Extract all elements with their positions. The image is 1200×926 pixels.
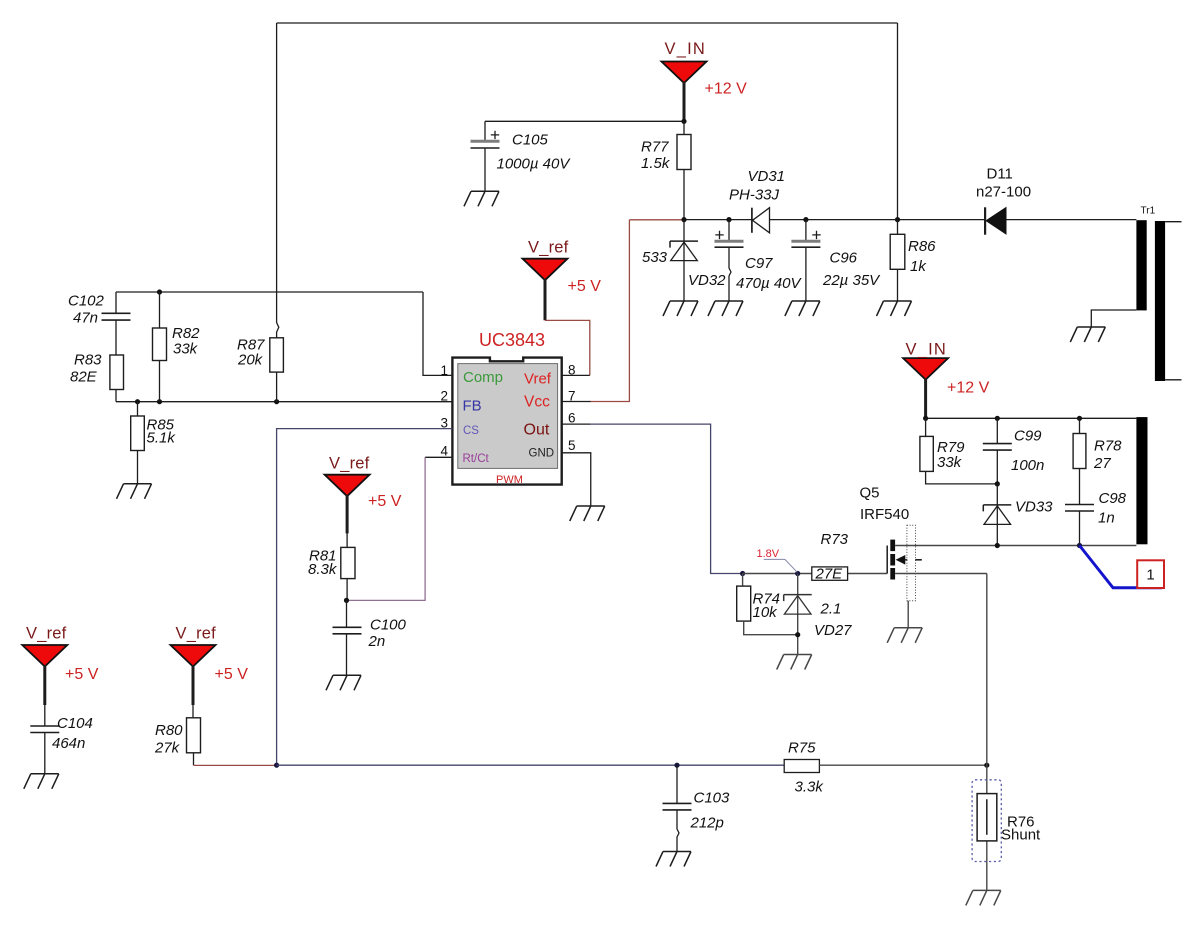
svg-text:Out: Out [524,422,550,439]
svg-text:C103: C103 [694,790,731,807]
resistor R79 [926,418,998,484]
wire node 1 blue [1080,546,1163,588]
wire top rail [277,22,898,24]
svg-text:212p: 212p [690,815,724,832]
svg-text:R83: R83 [74,352,102,369]
capacitor C98 [1079,511,1081,546]
svg-text:2n: 2n [368,633,386,650]
svg-text:1000µ 40V: 1000µ 40V [497,156,572,173]
svg-text:C96: C96 [830,250,858,267]
resistor R76 shunt [986,765,988,890]
svg-text:Comp: Comp [463,369,503,386]
svg-text:n27-100: n27-100 [976,184,1031,201]
junction C98 bottom [1077,543,1082,548]
wire Q5 tab to ground [907,601,909,628]
diode D11 [984,207,986,234]
svg-text:VD33: VD33 [1015,499,1053,516]
zener VD32 [683,220,685,301]
svg-text:R75: R75 [788,740,816,757]
svg-text:+12 V: +12 V [947,380,990,397]
svg-text:V_ref: V_ref [528,239,569,257]
svg-text:Tr1: Tr1 [1141,206,1156,217]
junction C99 top [995,416,1000,421]
resistor R85 [137,402,139,484]
svg-text:+5 V: +5 V [65,666,99,683]
transistor Q5 gate bar [886,546,888,574]
wire Tr1 secondary top lead [1165,221,1181,223]
capacitor C105 [484,121,486,141]
svg-text:R73: R73 [821,531,849,548]
junction rail/R86 [895,217,900,222]
svg-text:IRF540: IRF540 [860,506,909,523]
capacitor C96 [805,220,807,301]
svg-text:1.5k: 1.5k [641,155,671,172]
wire bottom CS rail [277,764,785,766]
ground C97 [708,301,743,316]
junction C103 [674,763,679,768]
svg-text:1: 1 [1146,567,1154,584]
wire V_IN right rail [926,417,1137,419]
svg-text:V_ref: V_ref [26,625,67,643]
power V_ref R80 [171,645,216,667]
junction R82 bottom [157,399,162,404]
svg-text:1n: 1n [1098,510,1115,527]
zener VD27 [797,574,799,655]
wire pin5 to ground [562,453,591,506]
wire Vcc net maroon [590,220,683,402]
svg-text:20k: 20k [237,352,264,369]
wire C105 to V_IN rail [485,120,684,122]
svg-text:+5 V: +5 V [568,278,602,295]
ground R85 [117,484,152,499]
svg-text:C99: C99 [1014,428,1042,445]
ground C104 [24,774,59,789]
wire R87 top column with jog [277,23,279,338]
svg-text:3.3k: 3.3k [795,779,825,796]
svg-text:Q5: Q5 [860,485,880,502]
capacitor C97 [729,220,731,301]
power V_ref pin8 [523,259,568,281]
svg-text:CS: CS [463,425,479,437]
transistor Q5 channel bars [890,540,895,552]
svg-text:FB: FB [463,398,482,415]
transformer Tr1 primary winding [1136,220,1146,310]
junction rail/C96 [803,217,808,222]
resistor R74 [742,574,744,587]
svg-text:1k: 1k [910,258,927,275]
capacitor C102 [115,292,117,355]
power V_ref C104 [22,645,67,667]
junction V_IN stem [923,416,928,421]
capacitor C103 [677,765,679,851]
svg-text:22µ 35V: 22µ 35V [822,272,881,289]
ground R76 [966,890,1001,905]
svg-text:82E: 82E [70,369,98,386]
junction VD33 bottom [995,543,1000,548]
junction R85 [135,399,140,404]
junction R74/VD27 bottom [795,632,800,637]
svg-text:Rt/Ct: Rt/Ct [463,453,490,465]
junction R75/R76/source [984,763,989,768]
wire main rail [684,219,1136,221]
wire Rt/Ct net purple [347,457,426,600]
svg-text:V_ref: V_ref [329,455,370,473]
svg-text:PWM: PWM [496,474,523,486]
power V_IN top [662,62,707,84]
wire pin8 stub [562,374,590,376]
junction rail/C97 [726,217,731,222]
node 1 port [1137,560,1164,588]
svg-text:C98: C98 [1099,490,1127,507]
diode VD31 [751,208,753,233]
svg-text:6: 6 [568,411,576,426]
transistor Q5 package outline [907,525,916,600]
junction rail/R77/VD32 [681,217,686,222]
junction R78 top [1077,416,1082,421]
transformer Tr1 secondary winding [1155,221,1165,381]
svg-text:R80: R80 [155,722,183,739]
svg-text:VD31: VD31 [748,168,786,185]
wire FB rail y402 [116,401,452,403]
wire Out net pin6 [562,423,591,425]
resistor R81 [346,533,348,600]
svg-text:V_ref: V_ref [176,625,217,643]
svg-text:C104: C104 [57,715,93,732]
svg-text:R77: R77 [641,139,669,156]
wire R80 to CS node maroon [194,764,277,766]
capacitor C99 [996,418,998,484]
junction R82 top [157,289,162,294]
resistor R73 [812,567,848,580]
svg-text:2: 2 [440,389,448,404]
svg-text:33k: 33k [173,341,199,358]
ground R86 [877,301,912,316]
svg-text:VD27: VD27 [814,622,852,639]
svg-text:C102: C102 [68,293,105,310]
wire gate row [743,573,888,575]
power V_IN right [903,358,948,380]
junction C99 bottom [995,481,1000,486]
svg-text:10k: 10k [753,604,779,621]
svg-text:+5 V: +5 V [368,493,402,510]
resistor R80 [192,704,195,765]
svg-text:5: 5 [568,438,576,453]
resistor R75 [784,760,819,773]
svg-text:5.1k: 5.1k [147,430,177,447]
svg-text:V_IN: V_IN [906,341,947,359]
svg-text:27k: 27k [154,740,181,757]
svg-text:V_IN: V_IN [665,40,706,58]
svg-text:Vcc: Vcc [524,394,550,411]
zener VD33 [996,484,998,546]
svg-text:1: 1 [440,363,448,378]
wire 1.8V pointer [764,559,798,572]
svg-text:533: 533 [642,249,668,266]
resistor R87 [270,338,284,372]
junction R87 bottom [274,399,279,404]
junction CS column bottom [274,763,279,768]
svg-text:27E: 27E [815,566,844,583]
ground VD32 [663,301,698,316]
wire Q5 drain row [895,545,1136,547]
svg-text:VD32: VD32 [688,272,726,289]
ground C100 [326,675,361,690]
svg-text:464n: 464n [52,735,85,752]
junction V_IN/R77/C105 [681,119,686,124]
svg-text:470µ 40V: 470µ 40V [736,275,803,292]
op-amp U1 UC3843 body [452,358,561,485]
svg-text:R86: R86 [908,238,936,255]
wire R86 top drop [897,23,899,220]
svg-text:R78: R78 [1094,438,1122,455]
ground VD27 [777,655,812,670]
ground C103 [656,852,691,867]
ground Q5 [887,628,922,643]
svg-text:+5 V: +5 V [215,666,249,683]
wire comp rail y292 [116,292,452,375]
resistor R83 [110,355,124,390]
svg-text:1.8V: 1.8V [757,548,780,560]
ground pin5 GND [570,506,605,521]
svg-text:33k: 33k [937,454,963,471]
resistor R78 [1079,418,1081,504]
svg-text:GND: GND [529,448,555,460]
svg-text:Shunt: Shunt [1001,827,1041,844]
capacitor C104 [44,704,46,774]
junction VD27 top [795,571,800,576]
wire CS net pin3 [277,429,453,766]
junction Out/R74 [740,571,745,576]
svg-text:C97: C97 [745,255,773,272]
wire source column [986,574,988,766]
ground C96 [785,301,820,316]
svg-text:Vref: Vref [524,371,552,388]
resistor R86 [897,220,899,301]
wire Tr1 primary bottom to ground [1091,310,1136,327]
svg-text:+12 V: +12 V [705,81,748,98]
power V_ref R81 [325,475,370,497]
resistor R82 [159,292,161,402]
transformer aux winding [1136,417,1147,544]
svg-text:D11: D11 [987,166,1013,183]
wire Vref net pin8 [545,320,590,375]
resistor R77 [683,121,685,219]
ground C105 [464,191,499,206]
transistor Q5 body arrow [896,555,906,565]
ground Tr1 [1070,327,1105,342]
svg-text:100n: 100n [1011,457,1044,474]
svg-text:PH-33J: PH-33J [729,186,780,203]
svg-text:C100: C100 [370,617,407,634]
capacitor C100 [346,600,348,675]
svg-text:C105: C105 [512,132,549,149]
svg-text:UC3843: UC3843 [479,330,545,350]
wire R75 to shunt node [819,764,986,766]
wire Q5 source row [895,573,987,575]
svg-text:27: 27 [1093,455,1111,472]
svg-text:8.3k: 8.3k [308,561,338,578]
svg-text:47n: 47n [73,310,98,327]
wire Tr1 secondary bottom lead [1165,379,1181,381]
svg-text:4: 4 [440,444,448,459]
wire Rt/Ct stub pin4 [425,456,452,458]
wire pin7 stub [562,401,591,403]
svg-text:2.1: 2.1 [820,601,842,618]
junction R81/C100/RtCt [344,598,349,603]
svg-text:R82: R82 [172,325,200,342]
